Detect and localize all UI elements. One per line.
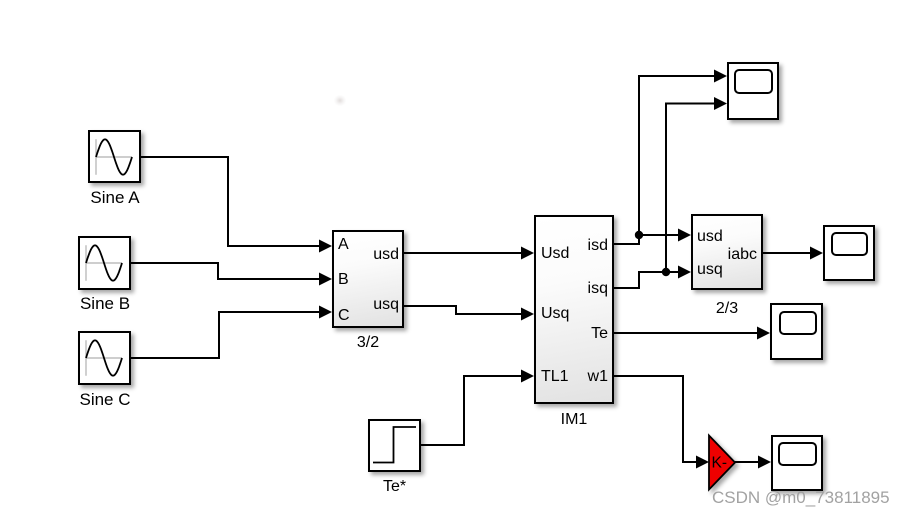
svg-text:K-: K-: [712, 455, 728, 472]
